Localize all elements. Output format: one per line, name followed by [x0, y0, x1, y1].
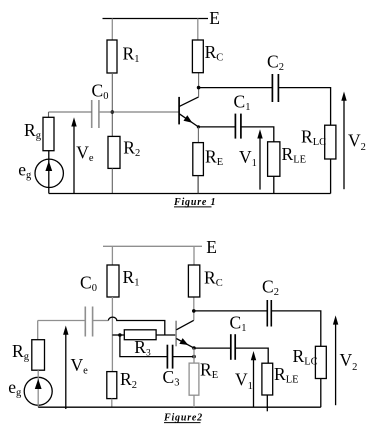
resistor R1 (fig2): [107, 265, 119, 297]
wire RE to ground rail (fig1): [197, 176, 199, 194]
wire Rg stub (fig2): [37, 321, 39, 340]
supply rail E (fig1): [103, 18, 209, 20]
transistor Q2 emitter line with arrow (fig2): [176, 338, 194, 348]
source eg arrow (fig1): [45, 151, 52, 194]
supply rail E (fig2): [103, 245, 202, 247]
wire emitter to C1 (fig2): [194, 347, 230, 349]
wire rail to RC (fig1): [197, 19, 199, 41]
resistor RE (fig1): [193, 143, 204, 176]
capacitor C2 (fig2): [267, 300, 271, 327]
wire rail to R1 (fig2): [111, 246, 113, 265]
wire RC to collector node (fig2): [193, 297, 195, 320]
node collector dot (fig2): [192, 309, 196, 313]
source eg arrow (fig2): [35, 370, 42, 407]
ground rail (fig2): [38, 406, 321, 408]
wire C2 to RLC (fig1): [278, 88, 330, 126]
svg-text:E: E: [209, 8, 220, 28]
resistor R2 (fig2): [107, 372, 117, 399]
wire rail to R1 (fig1): [111, 19, 113, 41]
node C3 junction dot (fig2): [192, 355, 196, 359]
wire hop over divider (fig2): [108, 317, 164, 335]
wire R2 to ground rail (fig1): [111, 168, 113, 193]
wire C2 to RLC (fig2): [271, 311, 321, 346]
wire RLE to ground rail (fig1): [273, 176, 275, 193]
wire RLC to ground rail (fig1): [330, 159, 332, 194]
node base junction dot (fig1): [111, 110, 115, 114]
arrow V1 (fig2): [251, 351, 256, 407]
arrow V2 (fig2): [333, 315, 338, 405]
resistor RE (fig2): [189, 363, 199, 395]
wire C1 to RLE (fig1): [241, 127, 274, 142]
resistor RLE (fig1): [268, 142, 280, 177]
arrow V1 (fig1): [257, 129, 262, 189]
wire input node to Rg (fig1): [48, 112, 50, 117]
capacitor C0 (fig2): [85, 307, 92, 337]
resistor Rg (fig1): [43, 117, 54, 150]
wire RE to ground rail (fig2): [193, 395, 195, 407]
node emitter dot (fig2): [192, 346, 196, 350]
wire emitter to C1 (fig1): [198, 126, 235, 128]
wire RC to collector node (fig1): [198, 73, 200, 97]
caption Figure 1: [173, 197, 216, 208]
capacitor C1 (fig1): [235, 114, 241, 139]
wire collector to C2 (fig1): [199, 87, 273, 89]
wire RLC to ground rail (fig2): [320, 379, 322, 408]
resistor RLE (fig2): [262, 363, 273, 395]
wire divider tap to R3 (fig2): [112, 334, 124, 336]
svg-text:E: E: [206, 237, 217, 257]
wire emitter to RE (fig1): [197, 127, 199, 143]
arrow Ve (fig2): [63, 326, 68, 410]
transistor Q2 base bar (fig2): [175, 321, 177, 347]
source eg circle (fig1): [35, 159, 63, 187]
wire C0 to hop (fig2): [93, 320, 109, 322]
arrow Ve (fig1): [71, 117, 76, 193]
caption Figure2: [163, 412, 203, 423]
transistor Q1 base bar (fig1): [178, 97, 180, 125]
capacitor C3 (fig2): [167, 345, 172, 369]
capacitor C1 (fig2): [231, 334, 235, 360]
resistor R1 (fig1): [107, 40, 117, 73]
wire rail to RC (fig2): [193, 246, 195, 265]
wire base node to transistor base (fig1): [99, 111, 179, 113]
node emitter dot (fig1): [197, 125, 200, 128]
node collector dot (fig1): [197, 86, 201, 90]
wire collector to C2 (fig2): [194, 310, 267, 312]
wire source to C0 (fig1): [49, 111, 92, 113]
wire junction to C3 (fig2): [120, 335, 167, 357]
wire R1 to base node (fig1): [111, 73, 113, 136]
capacitor C2 (fig1): [272, 74, 278, 102]
transistor Q1 emitter line with arrow (fig1): [179, 114, 198, 127]
svg-text:Figure 1: Figure 1: [173, 197, 216, 208]
resistor RC (fig1): [192, 40, 203, 73]
wire emitter to RE (fig2): [193, 348, 195, 363]
wire R3 to base (fig2): [156, 334, 176, 336]
capacitor C0 (fig1): [92, 100, 99, 128]
wire source to C0 (fig2): [38, 320, 86, 322]
wire RLE to ground rail (fig2): [266, 395, 268, 411]
resistor R3 (fig2): [124, 330, 156, 340]
resistor R2 (fig1): [108, 136, 120, 168]
ground rail (fig1): [49, 193, 331, 195]
wire C1 to RLE (fig2): [236, 348, 269, 363]
resistor RLC (fig1): [325, 125, 336, 159]
wire C3 to emitter branch (fig2): [173, 356, 194, 358]
source eg circle (fig2): [24, 377, 52, 405]
transistor Q1 collector line (fig1): [179, 97, 198, 107]
resistor Rg (fig2): [32, 340, 45, 371]
node R3 junction dot (fig2): [118, 333, 122, 337]
arrow V2 (fig1): [341, 92, 346, 190]
svg-text:Figure2: Figure2: [163, 412, 203, 423]
wire R2 to ground rail (fig2): [111, 399, 113, 408]
transistor Q2 collector line (fig2): [176, 320, 194, 330]
wire R1 to R2 divider (fig2): [111, 297, 113, 372]
resistor RLC (fig2): [315, 346, 326, 378]
resistor RC (fig2): [188, 265, 199, 297]
